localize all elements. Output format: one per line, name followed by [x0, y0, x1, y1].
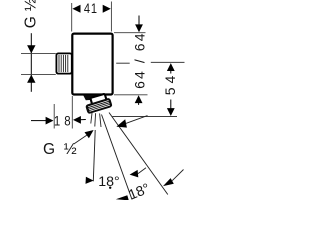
dim 54 top arrow [167, 63, 175, 73]
dim 41 extension line left [71, 3, 73, 32]
dim 64/64 bottom extension line [114, 94, 148, 96]
nipple top extension line [21, 53, 56, 55]
svg-text:G ½: G ½ [43, 141, 79, 158]
collar [83, 95, 98, 100]
dim 64/64 bottom arrow [135, 95, 143, 105]
wall plate [72, 34, 112, 95]
G1/2 leader [74, 130, 94, 144]
dim 18 extension line 2 [71, 96, 73, 129]
spray line 3 [100, 113, 101, 127]
svg-text:G ½: G ½ [22, 0, 39, 28]
pivot block [90, 94, 107, 106]
dim 64/64 top arrow [135, 16, 143, 33]
small dot [109, 187, 111, 189]
dim 41 extension line right [110, 2, 112, 32]
svg-text:18°: 18° [98, 174, 119, 190]
angle arrow mid (points at 18deg ray) [130, 168, 146, 178]
spray line 2 [94, 113, 97, 126]
spray line 1 [91, 113, 92, 124]
ray vertical arrow [86, 177, 94, 184]
ray 36deg [109, 113, 168, 195]
dim 64/64 top extension line [114, 32, 146, 34]
nipple bottom extension line [21, 73, 56, 75]
ray 18deg [102, 115, 133, 200]
dim 18 left arrow [31, 117, 54, 125]
svg-text:5 4: 5 4 [162, 75, 178, 95]
dim 41 right arrow [103, 5, 111, 13]
hose nut [85, 98, 113, 115]
G1/2 dim down arrow [27, 45, 35, 53]
angle arrow near nozzle [116, 116, 147, 128]
centre line left dash [116, 62, 130, 64]
dim 54 bottom arrow [167, 100, 175, 117]
centre line right segment [151, 61, 185, 63]
G1/2 dim vertical line [30, 33, 32, 92]
svg-text:8: 8 [64, 114, 70, 129]
dim 18 extension line 1 [53, 104, 55, 129]
svg-text:1: 1 [91, 1, 97, 16]
svg-text:1: 1 [54, 114, 60, 129]
ray vertical [93, 130, 95, 181]
angle arrow right (points at 36deg ray) [163, 170, 184, 187]
outlet level extension line [112, 116, 177, 118]
dim 41 left arrow [72, 5, 80, 13]
threaded nipple [56, 53, 71, 73]
svg-text:4: 4 [84, 1, 90, 16]
dim 18 right arrow [73, 116, 86, 124]
G1/2 dim up arrow [27, 75, 35, 83]
angle arrow at vertical ray bottom [116, 195, 129, 200]
